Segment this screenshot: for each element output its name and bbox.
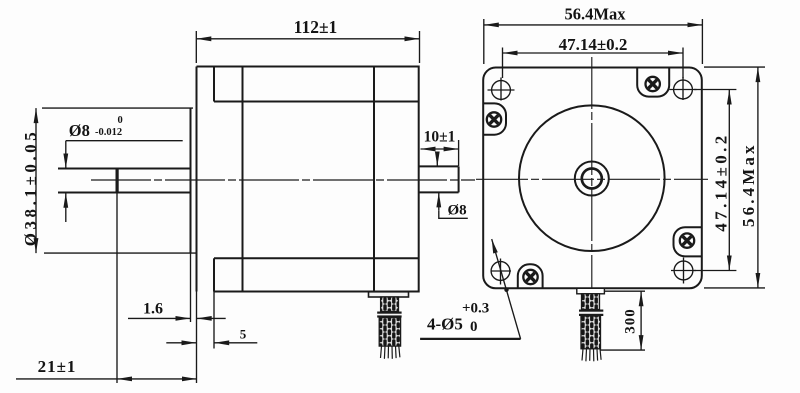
svg-text:47.14±0.2: 47.14±0.2 — [712, 132, 731, 231]
svg-text:0: 0 — [470, 319, 478, 335]
shaft hub circles — [575, 162, 609, 196]
dimension Ø8 rear shaft — [437, 154, 468, 219]
mounting hole top-left — [488, 78, 515, 101]
svg-text:112±1: 112±1 — [294, 17, 338, 37]
svg-text:56.4Max: 56.4Max — [565, 5, 627, 24]
dimension 5 flange — [166, 292, 257, 349]
front view lead wire bundle — [577, 288, 605, 361]
screw boss top-right — [637, 68, 669, 97]
screw boss bottom-right — [674, 227, 702, 256]
front view faceplate square — [483, 68, 702, 289]
svg-text:Ø8: Ø8 — [448, 203, 467, 219]
front shaft — [58, 169, 191, 193]
side view motor body outline — [197, 67, 419, 292]
mounting hole top-right — [670, 77, 697, 100]
dimension 56.4Max horizontal — [484, 5, 703, 64]
screw top-left — [487, 112, 501, 126]
front pilot boss face — [190, 108, 192, 253]
rear shaft — [419, 166, 459, 192]
screw bottom-left — [523, 270, 537, 284]
svg-text:Ø8: Ø8 — [69, 121, 90, 140]
svg-text:+0.3: +0.3 — [462, 301, 489, 317]
svg-text:Ø38.1±0.05: Ø38.1±0.05 — [21, 129, 40, 247]
dimension 10±1 rear shaft — [421, 129, 459, 167]
shaft center line — [91, 179, 475, 181]
svg-text:4-Ø5: 4-Ø5 — [427, 315, 463, 334]
svg-text:1.6: 1.6 — [143, 301, 163, 318]
dimension 47.14±0.2 horizontal — [503, 35, 684, 78]
svg-text:-0.012: -0.012 — [95, 127, 122, 138]
screw boss bottom-left — [518, 264, 543, 288]
dimension 300 lead length — [600, 291, 645, 350]
mounting hole bottom-right — [671, 258, 696, 284]
svg-text:5: 5 — [240, 327, 247, 342]
dimension 1.6 boss — [128, 253, 226, 383]
dimension 112±1 — [196, 17, 419, 63]
dimension 56.4Max vertical — [704, 67, 765, 288]
leader 4-Ø5 +0.3/0 — [420, 239, 520, 339]
mounting hole bottom-left — [491, 259, 511, 285]
svg-text:47.14±0.2: 47.14±0.2 — [559, 35, 628, 54]
side view lead wire bundle — [369, 292, 409, 359]
dimension Ø38.1±0.05 — [21, 108, 197, 253]
dimension Ø8 -0.012/0 shaft — [66, 115, 183, 222]
dimension 47.14±0.2 vertical — [694, 90, 736, 271]
screw bottom-right — [680, 233, 694, 247]
svg-text:56.4Max: 56.4Max — [739, 142, 758, 227]
screw boss top-left — [483, 103, 506, 134]
svg-text:21±1: 21±1 — [38, 357, 77, 376]
pilot circle — [519, 105, 665, 251]
svg-text:0: 0 — [118, 115, 123, 126]
svg-text:300: 300 — [622, 308, 638, 334]
front view center lines — [476, 178, 708, 180]
svg-text:10±1: 10±1 — [424, 129, 456, 146]
screw top-right — [646, 77, 660, 91]
dimension 21±1 shaft length — [16, 193, 197, 384]
